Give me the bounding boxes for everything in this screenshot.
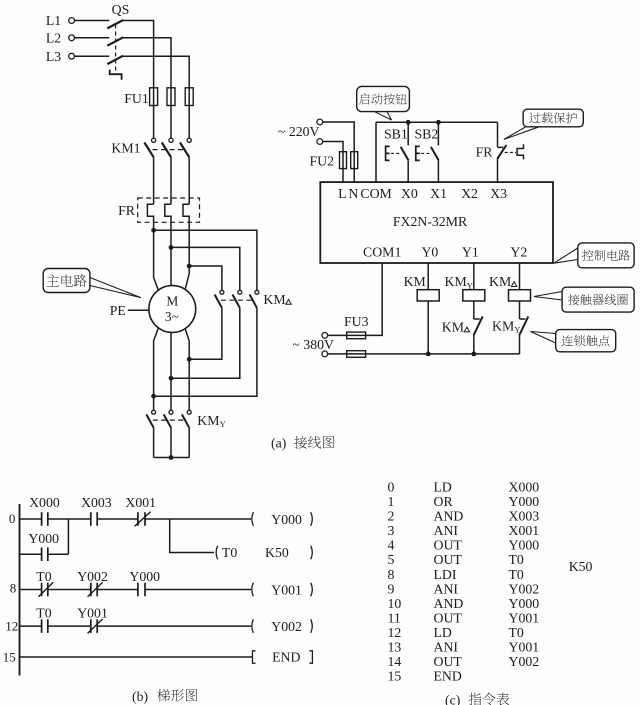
wire motor lead bottom-right xyxy=(185,329,189,410)
svg-text:11: 11 xyxy=(388,610,401,625)
svg-text:ANI: ANI xyxy=(434,581,459,596)
callout start-button pointer xyxy=(375,112,392,120)
callout overload-protection pointer xyxy=(504,127,526,140)
svg-text:3~: 3~ xyxy=(165,309,179,324)
node junction phase2 above motor xyxy=(169,245,174,250)
fuse FU1 element 1 xyxy=(153,88,155,106)
svg-text:X000: X000 xyxy=(509,479,540,494)
svg-text:L1: L1 xyxy=(46,13,61,28)
svg-text:Y002: Y002 xyxy=(271,619,302,634)
ladder branch Y000 drop wire xyxy=(67,519,69,554)
relay FR trip device xyxy=(517,144,523,159)
svg-text:FU3: FU3 xyxy=(344,314,369,329)
relay contact FR NC xyxy=(497,122,499,147)
contactor KMY contact 3 xyxy=(187,410,191,414)
svg-text:COM: COM xyxy=(360,186,391,201)
callout main-circuit pointer lines xyxy=(90,278,141,298)
svg-text:Y001: Y001 xyxy=(509,640,540,655)
svg-text:X0: X0 xyxy=(401,186,418,201)
svg-text:X003: X003 xyxy=(509,509,540,524)
wire motor lead bottom-left xyxy=(154,327,159,410)
svg-text:OR: OR xyxy=(434,494,454,509)
svg-text:0: 0 xyxy=(9,511,16,526)
button SB2 xyxy=(437,122,439,145)
svg-text:Y001: Y001 xyxy=(509,610,540,625)
node junction phase1 above motor xyxy=(151,228,156,233)
svg-text:13: 13 xyxy=(388,640,402,655)
wire KM1 1 to FR xyxy=(153,157,155,204)
switch QS pole 3 blade xyxy=(107,56,123,64)
svg-text:QS: QS xyxy=(112,2,130,17)
switch QS pole 1 blade xyxy=(107,20,123,28)
svg-text:AND: AND xyxy=(434,596,464,611)
ladder left rail xyxy=(19,504,21,676)
callout interlock-contact pointer xyxy=(531,332,556,334)
wire Y0 to coil KM xyxy=(427,263,429,290)
ladder contact X001 NC xyxy=(137,512,139,526)
ladder END coil xyxy=(253,651,256,663)
wire motor lead bottom-mid xyxy=(170,332,172,410)
svg-text:10: 10 xyxy=(388,596,402,611)
coil KM xyxy=(417,290,439,301)
contactor KMY linkage dashed xyxy=(153,419,184,421)
svg-text:OUT: OUT xyxy=(434,538,463,553)
ladder contact X000 xyxy=(41,512,43,526)
contactor KM1 main contact 3 xyxy=(187,138,191,142)
svg-text:ANI: ANI xyxy=(434,640,459,655)
svg-text:Y2: Y2 xyxy=(510,245,527,260)
svg-text:Y000: Y000 xyxy=(509,494,540,509)
svg-text:~ 380V: ~ 380V xyxy=(292,337,334,352)
svg-text:T0: T0 xyxy=(36,569,51,584)
callout main-circuit box xyxy=(43,269,90,293)
contactor KMdelta contact 1 xyxy=(220,290,224,294)
ladder coil Y001 xyxy=(252,583,254,597)
svg-text:~ 220V: ~ 220V xyxy=(278,124,320,139)
node junction SB1 rail xyxy=(406,120,411,125)
callout control-circuit box xyxy=(578,243,634,268)
svg-text:FX2N-32MR: FX2N-32MR xyxy=(393,214,468,229)
contactor KMY contact 1 xyxy=(152,410,156,414)
svg-text:LD: LD xyxy=(434,625,452,640)
wire L3 to QS xyxy=(75,55,110,57)
svg-text:1: 1 xyxy=(388,494,395,509)
svg-text:OUT: OUT xyxy=(434,610,463,625)
svg-text:L: L xyxy=(338,186,346,201)
svg-text:Y002: Y002 xyxy=(509,654,540,669)
svg-text:8: 8 xyxy=(10,581,16,596)
switch QS handle xyxy=(110,70,122,80)
wire phase2 to KMdelta contact 2 xyxy=(171,247,240,290)
callout interlock-contact box xyxy=(556,330,616,352)
callout start-button box xyxy=(357,86,410,111)
svg-text:8: 8 xyxy=(388,567,395,582)
button SB1 xyxy=(407,122,409,145)
thermal overload FR heater element 3 xyxy=(183,204,189,266)
wire motor lead top-right xyxy=(185,266,189,289)
svg-text:X2: X2 xyxy=(461,186,478,201)
wire 220V top to fuse FU2b xyxy=(323,122,354,152)
wire KMdelta contact1 return xyxy=(189,308,222,360)
node junction KMY-bus xyxy=(471,352,476,357)
svg-text:(c): (c) xyxy=(445,693,460,705)
svg-text:FU2: FU2 xyxy=(309,154,334,169)
svg-text:K50: K50 xyxy=(265,545,289,560)
switch QS linkage dashed xyxy=(115,25,117,71)
wire phase1 to KMdelta contact 3 xyxy=(154,230,257,290)
fuse FU1 element 2 xyxy=(170,88,172,106)
svg-text:M: M xyxy=(166,294,178,309)
node junction KM-bus xyxy=(426,352,431,357)
switch QS pole 2 blade xyxy=(107,37,123,45)
callout control-circuit pointer xyxy=(554,248,578,263)
ladder coil Y000 xyxy=(252,512,254,526)
terminal 220V top xyxy=(317,119,323,125)
svg-text:FR: FR xyxy=(476,144,494,159)
svg-text:OUT: OUT xyxy=(434,552,463,567)
svg-text:12: 12 xyxy=(5,618,18,633)
wire Y2 to coil KMdelta xyxy=(519,263,521,290)
svg-text:15: 15 xyxy=(388,669,402,684)
svg-text:Y001: Y001 xyxy=(271,582,302,597)
svg-text:PE: PE xyxy=(110,303,126,318)
svg-text:Y002: Y002 xyxy=(77,569,108,584)
ladder contact Y002 NC xyxy=(90,583,92,597)
wire fuse FU1 1 to KM1 xyxy=(153,106,155,139)
svg-text:Y000: Y000 xyxy=(129,569,160,584)
ladder contact Y001 NC xyxy=(90,619,92,633)
svg-text:Y: Y xyxy=(467,280,473,290)
ladder rung15 wire xyxy=(20,656,253,658)
ladder contact T0 NC xyxy=(41,583,43,597)
contactor KM1 linkage dashed xyxy=(153,149,185,151)
ladder branch Y000 wire segs xyxy=(20,553,42,555)
thermal overload FR dashed box xyxy=(138,198,200,222)
ladder rung0 wire segs xyxy=(20,518,42,520)
svg-text:2: 2 xyxy=(388,509,395,524)
node junction SB2 rail xyxy=(436,120,441,125)
wire motor lead top-left xyxy=(154,230,159,290)
svg-text:Y001: Y001 xyxy=(77,606,108,621)
svg-text:15: 15 xyxy=(3,650,16,665)
terminal 380V top xyxy=(322,333,328,339)
ladder rung12 wire segs xyxy=(20,625,42,627)
svg-text:5: 5 xyxy=(388,552,395,567)
wire coil KMdelta to interlock xyxy=(519,301,521,319)
svg-text:3: 3 xyxy=(388,523,395,538)
ladder contact X003 xyxy=(90,512,92,526)
wire 220V bottom to fuse FU2a xyxy=(323,142,343,152)
svg-text:END: END xyxy=(434,669,462,684)
contactor KMY contact 2 xyxy=(169,410,173,414)
svg-text:Y000: Y000 xyxy=(509,596,540,611)
wire fuse FU1 3 to KM1 xyxy=(188,106,190,139)
relay FR trip linkage dashed xyxy=(505,151,517,153)
svg-text:LDI: LDI xyxy=(434,567,457,582)
wire KM1 3 to FR xyxy=(188,157,190,204)
wire KMY contact 3 to star point xyxy=(188,428,190,458)
wire star point bar xyxy=(154,457,190,459)
ladder coil Y002 xyxy=(252,619,254,633)
contactor KMdelta contact 2 xyxy=(238,290,242,294)
contactor KMdelta contact 3 xyxy=(255,290,259,294)
wire COM1 to FU3 xyxy=(366,263,383,335)
ladder contact Y000 xyxy=(41,547,43,561)
contactor KM1 main contact 1 xyxy=(152,138,156,142)
svg-text:KM: KM xyxy=(197,413,219,428)
svg-text:T0: T0 xyxy=(509,567,524,582)
wire input rail xyxy=(376,121,498,123)
svg-text:X000: X000 xyxy=(29,495,60,510)
svg-text:X3: X3 xyxy=(490,186,507,201)
callout contactor-coil pointer xyxy=(534,292,562,297)
svg-text:T0: T0 xyxy=(509,552,524,567)
wire fuse FU1 2 to KM1 xyxy=(170,106,172,139)
svg-text:KM: KM xyxy=(404,274,426,289)
wire PE to motor xyxy=(128,309,149,311)
contactor KM1 main contact 2 xyxy=(169,138,173,142)
svg-text:T0: T0 xyxy=(222,545,237,560)
svg-text:L3: L3 xyxy=(46,49,61,64)
svg-text:9: 9 xyxy=(388,581,395,596)
ladder rung8 wire segs xyxy=(20,589,42,591)
wire motor lead top-mid xyxy=(170,247,172,285)
callout contactor-coil box xyxy=(562,287,634,312)
fuse FU3 element top xyxy=(328,334,347,336)
svg-text:Y0: Y0 xyxy=(421,245,438,260)
svg-text:T0: T0 xyxy=(36,606,51,621)
svg-text:SB2: SB2 xyxy=(415,127,439,142)
svg-text:K50: K50 xyxy=(569,559,593,574)
node junction phase3 above motor xyxy=(187,264,192,269)
wire KMdelta contact3 return xyxy=(154,308,257,396)
ladder contact T0b xyxy=(41,619,43,633)
svg-text:SB1: SB1 xyxy=(384,127,408,142)
wire L2 to QS xyxy=(75,37,110,39)
fuse FU2 element L xyxy=(342,152,344,182)
terminal 380V bottom xyxy=(322,351,328,357)
PLC FX2N-32MR box xyxy=(320,182,553,263)
svg-text:Y1: Y1 xyxy=(462,245,479,260)
svg-text:KM: KM xyxy=(445,274,467,289)
thermal overload FR heater element 1 xyxy=(147,204,153,230)
svg-text:Y: Y xyxy=(220,419,226,429)
wire KMY contact 1 to star point xyxy=(153,428,155,458)
node junction KMdelta1-phase3 xyxy=(187,357,192,362)
svg-text:Y000: Y000 xyxy=(509,538,540,553)
svg-text:KM: KM xyxy=(263,292,285,307)
svg-text:X001: X001 xyxy=(125,495,156,510)
coil KMY xyxy=(463,290,485,301)
wire Y1 to coil KMY xyxy=(473,263,475,290)
interlock contact KMdelta NC xyxy=(474,318,480,320)
wire coil KM to bus xyxy=(427,301,429,354)
svg-text:LD: LD xyxy=(434,479,452,494)
svg-text:T0: T0 xyxy=(509,625,524,640)
svg-text:(b): (b) xyxy=(132,689,148,705)
ladder coil T0 K50 xyxy=(216,546,218,560)
svg-text:0: 0 xyxy=(388,479,395,494)
svg-text:4: 4 xyxy=(388,538,395,553)
wire coil KMY to interlock xyxy=(473,301,475,319)
wire COM riser xyxy=(375,122,377,182)
svg-text:KM: KM xyxy=(492,318,514,333)
node star point junction xyxy=(169,455,174,460)
wire phase3 to KMdelta contact 1 xyxy=(189,266,222,290)
svg-text:X001: X001 xyxy=(509,523,540,538)
svg-text:OUT: OUT xyxy=(434,654,463,669)
callout overload-protection box xyxy=(523,109,583,127)
svg-text:END: END xyxy=(272,650,300,665)
svg-text:Y002: Y002 xyxy=(509,581,540,596)
wire QS pole1 to phase bus 1 xyxy=(123,21,154,88)
interlock contact KMY NC xyxy=(520,318,526,320)
svg-text:12: 12 xyxy=(388,625,402,640)
node junction KMdelta3-phase1 xyxy=(151,394,156,399)
wire L1 to QS xyxy=(75,20,110,22)
fuse FU3 element bottom xyxy=(328,353,366,355)
coil KMdelta xyxy=(509,290,531,301)
svg-text:L2: L2 xyxy=(46,30,61,45)
wire KMY contact 2 to star point xyxy=(170,428,172,458)
fuse FU1 element 3 xyxy=(188,88,190,106)
svg-text:Y000: Y000 xyxy=(271,512,302,527)
svg-text:KM: KM xyxy=(442,320,464,335)
svg-text:KM1: KM1 xyxy=(111,141,140,156)
wire KM1 2 to FR xyxy=(170,157,172,204)
wire QS pole2 to phase bus 2 xyxy=(123,38,171,88)
svg-text:KM: KM xyxy=(489,274,511,289)
svg-text:(a): (a) xyxy=(271,436,286,452)
thermal overload FR heater element 2 xyxy=(165,204,171,247)
wire KMdelta contact2 return xyxy=(171,308,240,378)
svg-text:14: 14 xyxy=(388,654,402,669)
ladder contact Y000b xyxy=(137,583,139,597)
svg-text:FU1: FU1 xyxy=(124,91,149,106)
svg-text:COM1: COM1 xyxy=(363,245,401,260)
fuse FU2 element N xyxy=(353,152,355,182)
ladder branch T0 wire xyxy=(170,519,214,553)
svg-text:X1: X1 xyxy=(430,186,447,201)
contactor KMdelta linkage dashed xyxy=(221,299,252,301)
svg-text:AND: AND xyxy=(434,509,464,524)
wire QS pole3 to phase bus 3 xyxy=(123,56,189,88)
svg-text:Y000: Y000 xyxy=(28,531,59,546)
node junction KMdelta2-phase2 xyxy=(169,376,174,381)
terminal 220V bottom xyxy=(317,139,323,145)
svg-text:ANI: ANI xyxy=(434,523,459,538)
svg-text:FR: FR xyxy=(118,203,136,218)
wire output bus xyxy=(366,353,520,355)
svg-text:X003: X003 xyxy=(81,495,112,510)
svg-text:N: N xyxy=(348,186,358,201)
motor M circle xyxy=(149,286,196,333)
